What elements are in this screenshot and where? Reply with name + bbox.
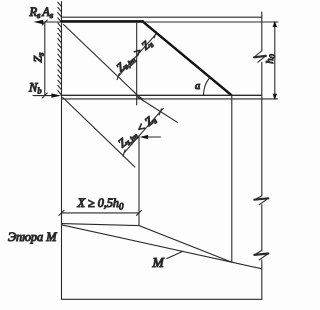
h0 dimension line xyxy=(274,22,276,99)
svg-text:Zs,im<Zs: Zs,im<Zs xyxy=(115,112,159,151)
vertical section line V1 xyxy=(136,22,138,105)
support face line xyxy=(61,2,63,300)
Zs dim end ticks xyxy=(42,20,47,98)
beam top edge line xyxy=(62,16,262,18)
h0 bottom arrowhead xyxy=(273,94,277,100)
svg-text:Nb: Nb xyxy=(28,80,42,95)
crack line 1 (45 deg from support corner) xyxy=(64,25,143,99)
vertical section extension line V2 xyxy=(138,137,140,226)
tension bar (thick top chord) xyxy=(62,20,144,23)
label Zs,im < Zs (rotated) xyxy=(115,112,159,151)
dimension line Zs,im < Zs xyxy=(124,108,163,153)
svg-text:Zs,im>Zs: Zs,im>Zs xyxy=(115,37,156,75)
label Zs (rotated) xyxy=(31,52,46,63)
dim1 end ticks xyxy=(117,32,156,80)
Zs dimension line xyxy=(44,23,46,96)
break mark 3 xyxy=(254,250,268,260)
support hatching xyxy=(58,2,61,95)
right cut line with break marks xyxy=(261,12,263,299)
X dimension line xyxy=(62,212,140,214)
svg-text:Zs: Zs xyxy=(31,52,46,63)
break mark 2 xyxy=(254,196,268,205)
Nb force arrow xyxy=(33,95,53,97)
label Zs,im > Zs (rotated) xyxy=(115,37,156,75)
leader arrow at section line xyxy=(147,136,161,138)
crack line 2 (below support corner) xyxy=(63,98,135,168)
vertical line at strut foot xyxy=(231,95,233,262)
compressed strut (thick diagonal) xyxy=(143,21,232,95)
svg-text:Эпюра М: Эпюра М xyxy=(8,230,57,244)
moment line lower xyxy=(62,225,232,262)
dim2 end ticks xyxy=(123,109,161,156)
break mark 1 xyxy=(254,51,266,62)
svg-text:RsAs: RsAs xyxy=(29,5,54,20)
Rs As force arrow xyxy=(42,21,62,23)
svg-text:M: M xyxy=(152,255,165,270)
svg-text:X ≥ 0,5h0: X ≥ 0,5h0 xyxy=(76,196,124,212)
h0 top arrowhead xyxy=(273,21,277,27)
moment tail line xyxy=(232,262,262,269)
dimension line Zs,im > Zs xyxy=(118,34,156,76)
X dim end ticks xyxy=(59,210,142,215)
svg-text:a: a xyxy=(195,81,200,92)
label h0 (rotated) xyxy=(264,54,277,64)
bottom chord line B1 xyxy=(62,94,262,96)
bottom border line xyxy=(62,298,262,300)
short strut extension diagonal xyxy=(137,97,177,123)
moment line upper (with knee) xyxy=(62,224,232,263)
bar axis thin continuation xyxy=(143,21,278,23)
M leader line xyxy=(167,251,183,258)
angle arc xyxy=(204,78,210,95)
beam bottom edge line B2 xyxy=(62,98,278,100)
